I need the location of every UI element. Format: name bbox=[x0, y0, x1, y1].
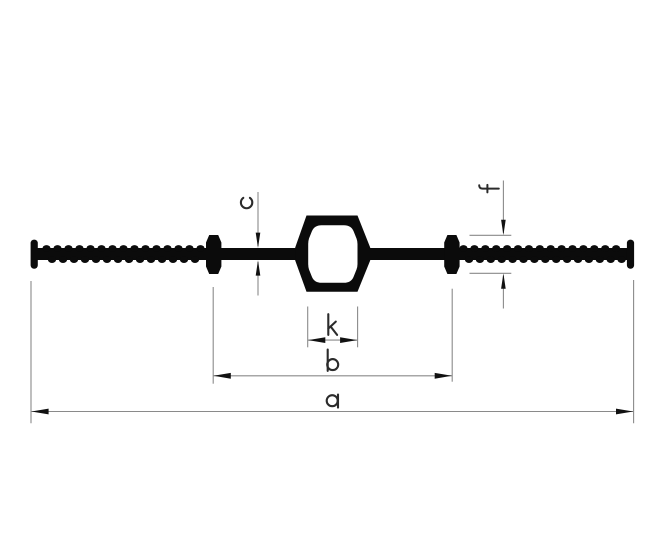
dimension b: left extension line bbox=[212, 287, 214, 384]
dimension k: right extension line bbox=[357, 307, 359, 348]
dimension f: upper line bbox=[502, 181, 504, 234]
right flange top teeth bbox=[459, 245, 620, 252]
left flange core strip bbox=[36, 248, 206, 260]
dimension b: right extension line bbox=[451, 289, 453, 382]
dimension a: left extension line bbox=[30, 281, 32, 423]
dimension a: right extension line bbox=[633, 280, 635, 423]
right flange bottom teeth bbox=[465, 256, 626, 263]
dimension c: lower arrow bbox=[256, 260, 261, 275]
left web bbox=[220, 248, 298, 260]
dimension c: upper arrow bbox=[256, 233, 261, 248]
right end bulb bbox=[627, 240, 634, 269]
dimension a: left arrow bbox=[31, 409, 48, 415]
dimension f: bottom tick bbox=[470, 272, 512, 274]
label b bbox=[327, 350, 338, 371]
dimension a: right arrow bbox=[616, 409, 633, 415]
left end bulb bbox=[31, 240, 38, 269]
dimension c: lower witness line bbox=[257, 262, 259, 296]
center bulb hollow (white hexagonal hole) bbox=[308, 225, 357, 283]
dimension k: line bbox=[308, 339, 357, 341]
left flange bottom teeth bbox=[48, 256, 199, 263]
dimension f: upper arrow bbox=[501, 220, 506, 236]
center bulb outer bbox=[295, 216, 370, 292]
label c (rotated) bbox=[241, 198, 252, 208]
dimension b: left arrow bbox=[214, 373, 231, 379]
dimension f: lower arrow bbox=[501, 273, 506, 288]
label f (rotated) bbox=[479, 185, 499, 193]
left flange top teeth bbox=[42, 245, 204, 252]
dimension b: right arrow bbox=[435, 373, 452, 379]
dimension b: line bbox=[213, 375, 452, 377]
dimension f: top tick bbox=[470, 234, 512, 236]
right flange core strip bbox=[459, 248, 628, 260]
right anchor rib bbox=[444, 235, 459, 274]
label k bbox=[328, 314, 337, 335]
left anchor rib bbox=[206, 235, 221, 274]
dimension k: left extension line bbox=[307, 307, 309, 348]
label a bbox=[327, 395, 338, 408]
right web bbox=[368, 248, 446, 260]
waterstop profile body bbox=[31, 216, 635, 292]
dimension k: right arrow bbox=[340, 337, 357, 343]
dimension a: line bbox=[31, 411, 633, 413]
dimension k: left arrow bbox=[308, 337, 325, 343]
dimension c: upper witness line bbox=[257, 192, 259, 246]
dimension f: lower line bbox=[502, 276, 504, 309]
